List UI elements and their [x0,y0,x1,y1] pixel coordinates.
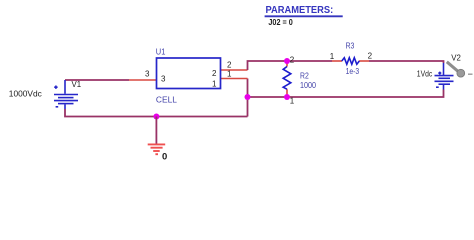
svg-text:2: 2 [290,56,295,65]
svg-text:V2: V2 [451,53,461,63]
ground wire stem [155,117,157,144]
svg-text:1: 1 [330,52,335,61]
wire V1 bottom rail to junction [65,109,248,117]
junction dot R2 bottom [284,94,290,100]
svg-text:J02 = 0: J02 = 0 [268,17,293,27]
wire pin 2 up to top rail [248,61,333,70]
svg-text:1e-3: 1e-3 [346,66,360,76]
svg-text:0: 0 [162,151,167,162]
svg-text:1Vdc: 1Vdc [417,68,433,78]
svg-text:1000Vdc: 1000Vdc [9,88,43,98]
svg-text:PARAMETERS:: PARAMETERS: [266,5,334,16]
pin 3 stub of U1 [129,79,157,81]
svg-text:CELL: CELL [156,95,177,105]
junction dot middle rail [245,94,251,100]
wire junction vertical pin1 down [247,79,249,117]
ground symbol [148,144,166,154]
battery V1 [54,80,78,109]
svg-text:R3: R3 [346,41,355,51]
op-amp U1 box [157,58,221,89]
svg-text:V1: V1 [72,79,82,89]
junction dot ground [153,114,159,120]
svg-text:2: 2 [368,52,373,61]
battery V2 [435,63,454,95]
pin 2 stub of U1 [221,69,248,71]
svg-text:1000: 1000 [300,80,316,90]
svg-text:1: 1 [227,70,232,79]
svg-text:3: 3 [161,74,166,83]
probe cursor [447,62,473,77]
junction dot R2 top [284,58,290,64]
pin 1 stub of U1 [221,78,248,80]
svg-text:U1: U1 [156,46,166,56]
wire V1 top to U1 pin 3 [65,79,129,81]
resistor R3 [332,58,369,65]
wire R3 right to V2 top [369,61,444,63]
svg-text:2: 2 [227,60,232,69]
svg-text:1: 1 [212,80,217,89]
svg-text:1: 1 [290,97,295,106]
svg-text:3: 3 [145,69,150,78]
PARAMETERS underline [265,15,343,17]
svg-text:2: 2 [212,69,217,78]
resistor R2 [283,61,291,97]
middle rail wire pin1 net to V2 bottom [248,95,444,97]
